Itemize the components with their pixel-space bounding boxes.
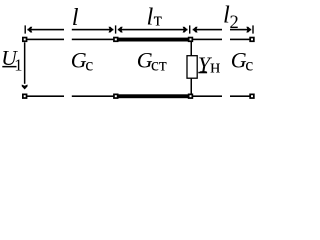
label l_T [147, 3, 163, 30]
wire: stub upper [191, 42, 193, 56]
svg-text:l: l [72, 4, 79, 31]
label U1 [1, 46, 22, 74]
node: top junction transformer/stub [189, 38, 193, 42]
svg-text:т: т [154, 10, 163, 31]
svg-text:с: с [85, 54, 93, 74]
dimension l : extension tick right [115, 25, 116, 33]
label Y_H [198, 52, 220, 78]
dimension l_T : left arrow [118, 27, 123, 33]
dimension l_2 : left arrow [193, 27, 198, 33]
node: bottom-right terminal [250, 94, 254, 98]
node: bottom junction line/transformer [114, 94, 118, 98]
wire: bottom conductor segment 2 [72, 95, 114, 97]
wire: top conductor segment 2 [72, 39, 114, 41]
wire: top conductor segment 3 [193, 39, 222, 41]
svg-text:1: 1 [14, 55, 22, 74]
node: top-right terminal [250, 38, 254, 42]
wire: stub lower [191, 79, 193, 94]
dimension l : line segment a [27, 29, 64, 31]
wire: bottom transformer bar (thick) [114, 94, 193, 98]
label G_c left [71, 48, 93, 75]
label l_2 [223, 1, 239, 33]
wire: bottom conductor segment 1 [27, 95, 64, 97]
svg-text:ст: ст [151, 54, 167, 74]
wire: bottom conductor segment 4 [230, 95, 250, 97]
svg-text:l: l [147, 3, 154, 30]
wire: top conductor segment 1 [27, 39, 64, 41]
wire: top conductor segment 4 [230, 39, 250, 41]
dimension l_2 : line segment a [193, 29, 222, 31]
svg-text:н: н [210, 56, 220, 77]
node: top-left terminal [23, 38, 27, 42]
U1 voltage arrow shaft [24, 42, 26, 84]
node: bottom-left terminal [23, 94, 27, 98]
svg-text:с: с [245, 54, 253, 74]
dimension l : line segment b [72, 29, 114, 31]
dimension l : extension tick left [25, 25, 26, 33]
node: bottom junction transformer/stub [189, 94, 193, 98]
load Y_H rectangle [187, 56, 197, 78]
dimension l : left arrow [27, 27, 32, 33]
dimension l_T : extension tick right [189, 25, 190, 33]
dimension l_T : line [118, 29, 188, 31]
U1 voltage arrow head [22, 85, 28, 90]
dimension l_2 : right arrow [246, 27, 251, 33]
wire: bottom conductor segment 3 [193, 95, 222, 97]
svg-text:2: 2 [230, 13, 239, 33]
dimension l : right arrow [109, 27, 114, 33]
label G_cT [137, 48, 167, 75]
dimension l_T : right arrow [183, 27, 188, 33]
node: top junction line/transformer [114, 38, 118, 42]
dimension l_2 : line segment b [230, 29, 251, 31]
dimension l_2 : extension tick right [252, 25, 253, 33]
label G_c right [231, 48, 253, 75]
wire: top transformer bar (thick) [114, 38, 193, 42]
